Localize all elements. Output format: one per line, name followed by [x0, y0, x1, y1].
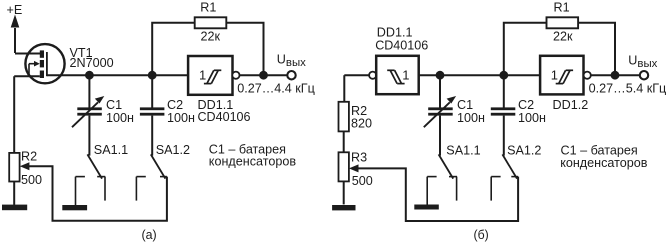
wire source lead: [14, 75, 40, 77]
wire R2 wiper: [29, 166, 167, 221]
wire source to R2: [13, 76, 15, 153]
op-amp gate DD1.2 box: [540, 56, 583, 95]
svg-text:500: 500: [352, 174, 373, 188]
caption battery note (b): [560, 144, 648, 170]
node output terminal b: [640, 71, 648, 79]
svg-text:(б): (б): [474, 228, 489, 242]
svg-text:(а): (а): [142, 228, 157, 242]
ground R2: [2, 205, 27, 211]
caption battery note (a): [209, 143, 297, 169]
label (b): [474, 228, 489, 242]
svg-text:0.27…5.4 кГц: 0.27…5.4 кГц: [589, 82, 667, 96]
svg-text:R3: R3: [351, 151, 367, 165]
wire R1b feedback up: [504, 23, 547, 75]
wire R2 bottom: [13, 182, 15, 205]
transistor VT1: [25, 44, 64, 83]
resistor R2 potentiometer: [9, 153, 19, 182]
svg-text:100н: 100н: [457, 111, 485, 125]
capacitor C1 (variable): [72, 96, 104, 127]
svg-text:CD40106: CD40106: [375, 38, 428, 52]
capacitor C2 b: [491, 107, 516, 115]
svg-text:конденсаторов: конденсаторов: [209, 155, 297, 169]
wire C2 bottom: [151, 116, 153, 156]
wire C2 top: [151, 75, 153, 107]
resistor R1 b: [547, 17, 579, 28]
ground SA1.1 b: [414, 205, 439, 210]
svg-text:Uвых: Uвых: [628, 53, 657, 70]
wire R1 right down: [226, 23, 263, 75]
svg-text:DD1.1: DD1.1: [377, 25, 413, 39]
wire R1 feedback up: [152, 23, 195, 75]
svg-text:R1: R1: [554, 1, 570, 15]
svg-text:SA1.2: SA1.2: [156, 143, 190, 157]
svg-text:Uвых: Uвых: [277, 52, 306, 69]
svg-text:конденсаторов: конденсаторов: [560, 156, 648, 170]
svg-text:R2: R2: [21, 150, 37, 164]
wire input down to R2: [343, 75, 345, 102]
svg-text:1: 1: [402, 67, 409, 82]
wire C1b bottom: [439, 116, 441, 156]
wire output b: [591, 74, 640, 76]
svg-text:820: 820: [351, 116, 372, 130]
svg-text:+Е: +Е: [7, 3, 23, 17]
gate DD1.1 output bubble: [232, 72, 239, 79]
node junction C1 b: [436, 71, 445, 80]
node junction output b: [611, 71, 620, 80]
wire rail b: [419, 74, 540, 76]
wire C1 bottom: [88, 116, 90, 156]
capacitor C2: [140, 107, 165, 115]
svg-text:100н: 100н: [518, 111, 546, 125]
svg-text:R1: R1: [200, 1, 216, 15]
wire R3 wiper: [358, 168, 519, 221]
ground R3: [332, 205, 355, 210]
capacitor C1 b (variable): [424, 96, 456, 127]
resistor R3 potentiometer: [339, 152, 349, 181]
wire drain lead: [15, 53, 41, 55]
svg-text:0.27…4.4 кГц: 0.27…4.4 кГц: [237, 82, 315, 96]
wire C2b top: [503, 75, 505, 107]
wire gate rail: [47, 74, 188, 76]
node junction C2/R1 b: [499, 71, 508, 80]
node junction C2/R1: [148, 71, 157, 80]
switch SA1.1: [76, 154, 106, 205]
resistor R1: [195, 17, 227, 28]
svg-text:2N7000: 2N7000: [70, 56, 114, 70]
switch SA1.2: [136, 154, 167, 200]
svg-text:1: 1: [199, 67, 206, 82]
wire output: [240, 74, 287, 76]
switch SA1.2 b: [491, 154, 518, 200]
svg-text:100н: 100н: [106, 111, 134, 125]
svg-text:100н: 100н: [167, 111, 195, 125]
wire input left: [344, 74, 369, 76]
svg-text:22к: 22к: [201, 29, 221, 43]
switch SA1.1 b: [427, 154, 457, 204]
wire C1b top: [439, 75, 441, 107]
label (a): [142, 228, 157, 242]
op-amp U1 gate DD1.1 box: [188, 56, 232, 95]
wire C1 top: [88, 75, 90, 107]
svg-text:DD1.2: DD1.2: [553, 98, 589, 112]
svg-text:22к: 22к: [553, 29, 573, 43]
power +E arrow: [14, 28, 16, 53]
op-amp gate DD1.1b box: [376, 56, 419, 94]
svg-text:SA1.1: SA1.1: [94, 143, 128, 157]
ground SA1.1: [62, 205, 87, 210]
svg-text:SA1.1: SA1.1: [446, 144, 480, 158]
node junction output: [259, 71, 268, 80]
wire R2b to R3b: [343, 131, 345, 152]
svg-text:SA1.2: SA1.2: [507, 144, 541, 158]
wire R1b right down: [578, 23, 615, 75]
node output terminal: [287, 71, 295, 79]
gate DD1.1 symbol: [204, 70, 221, 83]
gate DD1.1b symbol (mirrored): [387, 70, 404, 83]
gate DD1.2 output bubble: [584, 72, 591, 79]
wire C2b bottom: [503, 116, 505, 156]
gate DD1.1b input bubble: [369, 72, 376, 79]
node junction C1: [85, 71, 94, 80]
svg-text:500: 500: [21, 173, 42, 187]
svg-text:CD40106: CD40106: [198, 110, 251, 124]
svg-text:1: 1: [551, 67, 558, 82]
wire R3 bottom: [343, 181, 345, 204]
resistor R2 b: [339, 102, 349, 132]
node +E label: [7, 3, 23, 17]
gate DD1.2 symbol: [556, 70, 573, 83]
